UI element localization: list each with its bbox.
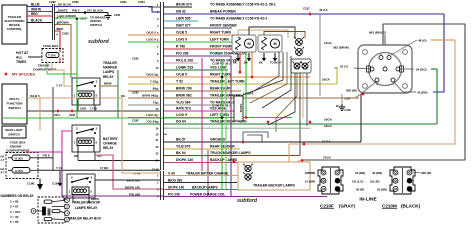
splice 308 — [361, 92, 364, 95]
svg-text:DB/Y 677: DB/Y 677 — [176, 24, 191, 28]
svg-text:BREAK POWER: BREAK POWER — [210, 10, 236, 14]
svg-text:C188: C188 — [345, 109, 352, 112]
svg-text:S218: S218 — [80, 17, 87, 21]
svg-text:50 (R): 50 (R) — [356, 188, 364, 192]
wire tan vert x122 — [40, 98, 122, 173]
svg-text:C282: C282 — [132, 56, 139, 60]
svg-text:SWITCH: SWITCH — [90, 23, 102, 27]
svg-text:(GRAY): (GRAY) — [339, 204, 355, 209]
lamp right 1 — [294, 37, 304, 45]
svg-text:P/O 298: P/O 298 — [168, 192, 180, 196]
svg-text:HA: HA — [1, 167, 5, 171]
svg-text:GROUND: GROUND — [210, 138, 226, 142]
wire to ground C198 — [39, 179, 41, 185]
svg-text:LG/BK 519: LG/BK 519 — [176, 66, 193, 70]
svg-text:308 (W): 308 (W) — [346, 88, 357, 92]
splice dkpk row — [232, 160, 235, 163]
svg-text:C140: C140 — [152, 167, 159, 171]
svg-text:3 = 87A: 3 = 87A — [10, 210, 21, 214]
svg-text:C187: C187 — [303, 6, 310, 10]
svg-text:LAMPS: LAMPS — [103, 70, 114, 74]
fuse 25A — [12, 168, 30, 174]
svg-text:17 BK: 17 BK — [90, 107, 97, 111]
ground triangle — [37, 184, 43, 190]
splice dg row 1 — [266, 120, 269, 123]
wire white pin2 to ground — [55, 12, 85, 14]
svg-text:17 BK: 17 BK — [100, 166, 109, 170]
connector C140 — [160, 171, 162, 200]
svg-text:O 49: O 49 — [168, 171, 175, 175]
wire dark green right vert — [436, 69, 438, 124]
svg-text:O/LB 5: O/LB 5 — [176, 31, 187, 35]
connector C157 vertical — [160, 2, 162, 170]
wire dg vert x118 — [117, 70, 119, 118]
wire dkpink vert x113 — [95, 155, 163, 189]
svg-text:FUSE BOX: FUSE BOX — [43, 44, 58, 48]
svg-text:A T: A T — [1, 158, 5, 162]
svg-text:Y/LB 675: Y/LB 675 — [176, 145, 190, 149]
svg-text:P/O 298: P/O 298 — [176, 52, 189, 56]
svg-text:16GA: 16GA — [324, 124, 333, 128]
svg-text:TRAILER RELAY BOX: TRAILER RELAY BOX — [68, 217, 102, 221]
wire green horiz y118 — [3, 117, 222, 119]
wire red vert x240 — [239, 49, 241, 74]
svg-text:BK: BK — [63, 197, 67, 201]
svg-text:43 (DB): 43 (DB) — [372, 171, 382, 175]
svg-text:P/O 298: P/O 298 — [129, 192, 140, 196]
wire y 37 bottom — [38, 169, 160, 171]
svg-text:C280: C280 — [114, 13, 121, 17]
wires crossing midfield — [252, 52, 279, 92]
svg-text:4 = 30: 4 = 30 — [10, 215, 19, 219]
svg-text:LG/O 9: LG/O 9 — [146, 113, 156, 117]
svg-text:42 GA: 42 GA — [319, 8, 329, 12]
trailer connector holes — [363, 50, 368, 55]
svg-text:C282: C282 — [49, 0, 56, 4]
svg-text:BR/W 962: BR/W 962 — [142, 94, 156, 98]
svg-text:HOT AT: HOT AT — [16, 51, 29, 55]
splice 12ga — [302, 142, 305, 145]
svg-text:O/LB 5: O/LB 5 — [176, 73, 187, 77]
svg-text:YL/G 964: YL/G 964 — [176, 101, 191, 105]
svg-text:WHITE: WHITE — [58, 8, 68, 12]
svg-text:RED: RED — [31, 12, 38, 16]
svg-text:48 (O): 48 (O) — [418, 38, 427, 42]
svg-text:subford: subford — [237, 198, 258, 204]
wire purple vert x231 — [230, 56, 232, 196]
svg-text:R 796: R 796 — [176, 45, 185, 49]
svg-text:Y 52: Y 52 — [150, 80, 156, 84]
svg-text:54 (DG): 54 (DG) — [416, 67, 427, 71]
svg-text:298 (W): 298 (W) — [305, 171, 315, 175]
svg-text:LB/R 535: LB/R 535 — [176, 17, 191, 21]
svg-text:O 30A: O 30A — [15, 156, 23, 160]
svg-text:WHITE: WHITE — [31, 8, 41, 12]
svg-text:43 (DB): 43 (DB) — [355, 171, 365, 175]
in-line connector C210M — [390, 167, 415, 194]
svg-text:12 GA: 12 GA — [322, 139, 332, 143]
svg-text:SWITCH: SWITCH — [8, 106, 21, 110]
backup lamp 2 — [243, 172, 253, 180]
svg-text:1 = 86: 1 = 86 — [10, 199, 19, 203]
relay box pin 5 — [65, 217, 70, 222]
wire green vert x77 — [76, 19, 78, 118]
svg-text:O/LB 5: O/LB 5 — [146, 31, 156, 35]
svg-text:DK/PK 140: DK/PK 140 — [125, 185, 141, 189]
svg-text:DK/PK 140: DK/PK 140 — [168, 185, 184, 189]
splice on left turn — [244, 116, 247, 119]
wire o/lb 5 from switch — [27, 97, 40, 99]
wire splice 42GA on brake power — [308, 12, 311, 15]
svg-text:BLACK: BLACK — [31, 19, 43, 23]
svg-text:POWER CHARGE COIL: POWER CHARGE COIL — [190, 192, 225, 196]
svg-text:LG/O 9: LG/O 9 — [146, 38, 156, 42]
relay box pin 2 — [31, 209, 36, 214]
wire red — [27, 15, 52, 17]
wire navy right vert — [433, 14, 444, 92]
wire black vert x361 — [360, 94, 362, 142]
backup lamp 1 — [243, 164, 253, 172]
svg-text:C210F: C210F — [320, 204, 334, 209]
svg-text:BR/W: BR/W — [104, 82, 112, 86]
wire orange vert x252 — [251, 35, 253, 77]
svg-text:Y 37: Y 37 — [56, 83, 62, 87]
svg-text:BR/W 962: BR/W 962 — [176, 94, 192, 98]
svg-text:TRAILER LEFT TURN: TRAILER LEFT TURN — [210, 80, 245, 84]
svg-text:TRAILER BACKUP: TRAILER BACKUP — [72, 201, 101, 205]
svg-text:TRAILER BACKUP LAMPS: TRAILER BACKUP LAMPS — [253, 184, 296, 188]
svg-text:SWITCH: SWITCH — [8, 133, 19, 137]
fuse 30A — [12, 155, 30, 161]
svg-text:LG/O 9: LG/O 9 — [176, 38, 187, 42]
svg-text:963 (BK/LG): 963 (BK/LG) — [369, 30, 386, 34]
motor top wires — [238, 30, 288, 38]
svg-text:LEFT TURN: LEFT TURN — [210, 38, 229, 42]
svg-text:BK: BK — [74, 154, 78, 158]
svg-text:C2002: C2002 — [239, 104, 243, 113]
relay box pin 1 — [65, 198, 70, 203]
svg-text:RELAY: RELAY — [103, 146, 114, 150]
row1 left short — [148, 6, 161, 8]
svg-text:Light GREEN: Light GREEN — [57, 14, 76, 18]
motor left (washer pump) — [232, 35, 256, 52]
splice red — [238, 70, 241, 73]
svg-text:TRAILER: TRAILER — [103, 61, 118, 65]
splice S196 — [70, 109, 73, 112]
svg-text:511 (R): 511 (R) — [370, 179, 380, 183]
svg-text:NUMBERS ON RELAY: NUMBERS ON RELAY — [1, 194, 35, 198]
svg-text:IN-LINE: IN-LINE — [359, 197, 377, 203]
relay1 wires — [94, 105, 96, 111]
wire tan elbow fuse to relay1 — [52, 63, 72, 87]
multi-function switch box — [2, 84, 27, 124]
ground G100 — [105, 13, 112, 19]
svg-text:511 (LG): 511 (LG) — [352, 179, 363, 183]
relay box internals — [44, 200, 52, 203]
svg-text:C284: C284 — [138, 0, 145, 4]
svg-text:BK 57: BK 57 — [176, 138, 186, 142]
svg-text:TO RABS ASSEMBLY C158 PG 42-2: TO RABS ASSEMBLY C158 PG 42-2, 58-1 — [210, 3, 276, 7]
trailer backup lamps relay — [67, 174, 95, 198]
svg-text:FRONT SENDER: FRONT SENDER — [210, 24, 237, 28]
wires black bundle mid — [243, 132, 268, 138]
svg-text:PIN 2: PIN 2 — [72, 8, 80, 12]
wire black vert x53 — [52, 87, 54, 171]
svg-text:BK/W 374: BK/W 374 — [176, 3, 192, 7]
svg-text:C281: C281 — [120, 0, 127, 4]
connector C282 left — [52, 4, 54, 40]
svg-text:52 (Y): 52 (Y) — [340, 64, 348, 68]
svg-text:16GA: 16GA — [324, 117, 333, 121]
svg-text:MULTI-: MULTI- — [9, 97, 19, 101]
svg-text:TIMES: TIMES — [16, 60, 27, 64]
wire purple vert x62 — [62, 152, 163, 196]
lamp right 2 — [294, 47, 304, 55]
in-line connector C210F — [318, 167, 343, 194]
svg-text:ALL: ALL — [16, 55, 23, 59]
relay box pin 3 — [65, 204, 70, 209]
svg-text:382 (BR/W): 382 (BR/W) — [333, 46, 349, 50]
svg-text:RELAY: RELAY — [103, 75, 114, 79]
svg-text:PK/LG 106: PK/LG 106 — [176, 59, 193, 63]
wire y/r 8 — [38, 157, 53, 159]
trailer connector pins — [379, 56, 383, 60]
splice on right turn — [250, 75, 253, 78]
svg-text:BATTERY: BATTERY — [103, 137, 119, 141]
svg-text:Y/R 8: Y/R 8 — [42, 154, 50, 158]
svg-text:CONTROL: CONTROL — [7, 27, 22, 31]
svg-text:DG 64: DG 64 — [147, 120, 156, 124]
svg-text:BK: BK — [233, 60, 237, 64]
wire dk blue to C157 — [55, 7, 160, 13]
wire dg64 up link — [436, 123, 438, 125]
svg-text:BACKUP LAMPS: BACKUP LAMPS — [192, 185, 218, 189]
wire magenta headlight — [26, 151, 62, 153]
wire green vert x222 — [221, 60, 223, 190]
svg-text:LG/O 9: LG/O 9 — [176, 113, 187, 117]
wire brown — [55, 25, 71, 79]
wire white — [27, 11, 52, 13]
wire brown to splice — [355, 94, 361, 98]
wires lamps down — [240, 52, 283, 96]
svg-text:S70: S70 — [87, 8, 92, 12]
svg-text:C198: C198 — [27, 182, 35, 186]
svg-text:BK: BK — [259, 60, 263, 64]
svg-text:VSS LOW: VSS LOW — [210, 66, 226, 70]
svg-text:50 (BK): 50 (BK) — [377, 188, 387, 192]
svg-text:BLUE: BLUE — [31, 3, 40, 7]
svg-text:C282: C282 — [62, 32, 69, 36]
svg-text:subford: subford — [88, 39, 109, 45]
svg-text:(BLACK): (BLACK) — [401, 204, 421, 209]
svg-text:HEAD LIGHT: HEAD LIGHT — [5, 128, 23, 132]
splice S211 — [56, 109, 59, 112]
svg-text:89: 89 — [153, 87, 157, 91]
svg-text:BLACK: BLACK — [93, 8, 104, 12]
wire tan right vert — [289, 40, 455, 144]
battery charge relay — [72, 125, 100, 152]
svg-text:LAMPS RELAY: LAMPS RELAY — [75, 206, 98, 210]
svg-text:CHARGE: CHARGE — [103, 142, 117, 146]
wire tan down into backup box — [288, 144, 290, 162]
relay3 wires — [72, 198, 74, 203]
wire tan vert x40 — [39, 98, 41, 130]
svg-text:298 (W): 298 (W) — [421, 171, 431, 175]
svg-text:TO RABS ASSEMBLY C158 PG 42-2: TO RABS ASSEMBLY C158 PG 42-2 — [210, 17, 267, 21]
wire red to fuse — [55, 31, 60, 52]
svg-text:A T: A T — [1, 171, 5, 175]
svg-text:BK/G 963: BK/G 963 — [168, 178, 182, 182]
wire maroon vert x208 — [207, 150, 209, 196]
wire black S-row — [27, 110, 160, 112]
trailer backup lamps box — [238, 162, 310, 190]
wire pin4 to splice — [361, 81, 377, 94]
legend my splices — [4, 72, 7, 75]
trailer relay box dashed — [38, 197, 65, 223]
svg-text:RED: RED — [57, 27, 64, 31]
wire gray vert x320 — [319, 14, 321, 96]
svg-text:16GA: 16GA — [322, 77, 331, 81]
svg-text:BROWN: BROWN — [57, 21, 69, 25]
motor grounds — [236, 53, 240, 62]
relay2 wires — [77, 152, 79, 161]
svg-text:DB 42: DB 42 — [176, 10, 186, 14]
svg-text:DG 64: DG 64 — [176, 120, 186, 124]
svg-text:BR/W 799: BR/W 799 — [176, 87, 192, 91]
svg-text:TO BK 57: TO BK 57 — [270, 60, 282, 64]
svg-text:S196: S196 — [69, 113, 76, 117]
svg-text:C282: C282 — [132, 90, 139, 94]
head light switch box — [2, 126, 26, 138]
svg-text:C282: C282 — [132, 118, 139, 122]
splice red x243 y142 — [241, 140, 244, 143]
connector C2002 — [234, 96, 243, 121]
svg-text:DK/PK: DK/PK — [91, 197, 99, 201]
svg-text:72: 72 — [153, 101, 157, 105]
wire black top rect — [302, 24, 465, 160]
svg-text:RIGHT TURN: RIGHT TURN — [210, 31, 231, 35]
svg-text:Y 52: Y 52 — [176, 80, 183, 84]
svg-text:C187: C187 — [345, 97, 352, 100]
splice dg row 2 — [308, 120, 311, 123]
svg-text:14GA: 14GA — [323, 155, 332, 159]
svg-text:REAR PUMP: REAR PUMP — [210, 87, 231, 91]
svg-text:43 (DB): 43 (DB) — [417, 90, 428, 94]
wire green vert x226 — [225, 64, 227, 190]
svg-text:TRAILER BATTER CHARGE: TRAILER BATTER CHARGE — [186, 171, 228, 175]
gray ground C188 — [341, 94, 343, 104]
wire black vert x302 down — [298, 161, 300, 171]
svg-text:DG: DG — [121, 94, 125, 98]
svg-text:14 (BR): 14 (BR) — [305, 179, 315, 183]
trailer marker lamps relay — [72, 78, 100, 105]
svg-text:14GA: 14GA — [324, 41, 333, 45]
svg-text:2 = 87: 2 = 87 — [10, 205, 19, 209]
trailer electronic brake control box — [2, 5, 27, 44]
trailer connector body — [358, 45, 412, 93]
svg-text:S180: S180 — [80, 107, 87, 111]
wire magenta vert x202 — [201, 58, 203, 171]
wire green vert x246 — [245, 42, 247, 118]
svg-text:MARKER: MARKER — [103, 66, 118, 70]
svg-text:RIGHT TURN: RIGHT TURN — [210, 73, 231, 77]
motor right (washer pump) — [258, 35, 282, 52]
svg-text:HA: HA — [1, 155, 5, 159]
svg-text:FRONT PUMP: FRONT PUMP — [210, 45, 233, 49]
svg-text:BK 94: BK 94 — [176, 151, 186, 155]
svg-text:BK: BK — [244, 60, 248, 64]
lamp box pair — [291, 59, 311, 73]
svg-text:C266: C266 — [72, 0, 79, 4]
splice backup lamps — [300, 159, 303, 162]
wire yellow link — [354, 68, 370, 69]
wire light green — [55, 17, 77, 19]
wire blue — [27, 6, 52, 8]
wire magenta relay2 — [62, 131, 72, 152]
svg-text:R/PK 573: R/PK 573 — [176, 107, 191, 111]
svg-text:S211: S211 — [54, 113, 60, 117]
svg-text:FUNCTION: FUNCTION — [7, 102, 24, 106]
wire black — [27, 22, 52, 24]
relay box pin 4 — [65, 211, 70, 216]
svg-text:LAMPS: LAMPS — [243, 91, 254, 95]
svg-text:DK BLUE: DK BLUE — [58, 2, 71, 6]
svg-text:T 30A: T 30A — [48, 54, 56, 58]
svg-text:O 25A: O 25A — [15, 169, 23, 173]
svg-text:O/LB 5: O/LB 5 — [30, 94, 40, 98]
svg-text:MY SPLICES: MY SPLICES — [12, 73, 35, 77]
trailer connector circle — [369, 53, 402, 86]
svg-text:DK/PK 140: DK/PK 140 — [176, 158, 193, 162]
wire green elbow — [47, 63, 77, 75]
svg-text:5 = 85: 5 = 85 — [10, 220, 19, 224]
svg-text:C210M: C210M — [382, 204, 397, 209]
svg-text:O/LB 5: O/LB 5 — [146, 73, 156, 77]
